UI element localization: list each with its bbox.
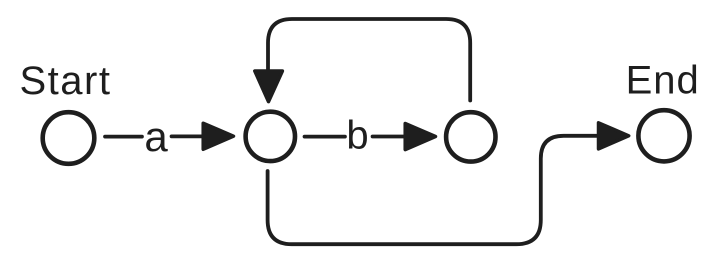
svg-text:Start: Start (20, 59, 112, 103)
svg-text:End: End (626, 59, 700, 103)
svg-text:a: a (144, 113, 168, 160)
svg-text:b: b (346, 114, 368, 158)
